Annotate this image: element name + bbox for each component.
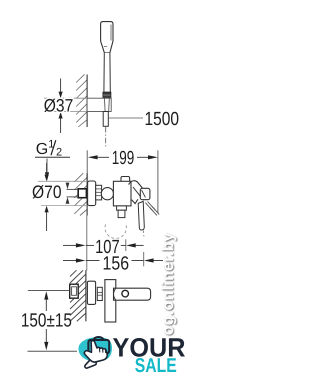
150 upper tail xyxy=(45,300,47,311)
finger separation lines xyxy=(100,349,106,353)
mixer body bar (bottom view) xyxy=(105,280,116,322)
svg-text:1500: 1500 xyxy=(145,109,180,130)
shopping bag body xyxy=(88,340,109,353)
bracket cone lines xyxy=(104,98,107,111)
199 dimension line xyxy=(97,156,109,158)
156 arrowhead right xyxy=(144,258,154,262)
shower outlet lower step xyxy=(118,210,125,217)
107 arrowhead left xyxy=(76,243,86,247)
107 arrowhead right xyxy=(126,243,136,247)
107 dimension line segments xyxy=(86,244,94,246)
shower head inner edge line xyxy=(110,25,112,41)
svg-text:2: 2 xyxy=(56,146,62,158)
dimension Ø37 arrow up-tail xyxy=(60,79,62,93)
hand shower head xyxy=(101,22,113,53)
hand wrist xyxy=(85,358,96,368)
dimension Ø70 arrow top tail xyxy=(46,163,48,175)
floor reference line xyxy=(28,350,78,352)
spout arm xyxy=(114,288,151,300)
156 right arrow tail xyxy=(153,260,163,262)
hose centerline (dash-dot) xyxy=(105,127,107,147)
lever top arc xyxy=(129,181,145,192)
dimension Ø37 arrow down-tail xyxy=(60,119,62,134)
leader line for 1500 xyxy=(108,117,143,119)
156 left arrow tail xyxy=(63,260,76,262)
150 lower tail xyxy=(45,329,47,342)
199 extension line right xyxy=(157,150,159,213)
G 1/2 leader arrowhead xyxy=(45,172,49,181)
dimension Ø70 arrow bottom tail xyxy=(46,212,48,231)
svg-text:Ø37: Ø37 xyxy=(44,96,74,116)
svg-text:G: G xyxy=(36,141,48,158)
nut flat lines xyxy=(96,188,102,190)
svg-text:Ø70: Ø70 xyxy=(32,182,62,202)
svg-text:156: 156 xyxy=(103,253,130,274)
mixer body (side view) xyxy=(113,181,131,206)
svg-text:SALE: SALE xyxy=(135,355,177,377)
fraction slash xyxy=(51,140,56,155)
lever end knob xyxy=(140,188,150,199)
left extension line continuing down to bottom view xyxy=(86,216,88,271)
150 arrowhead up xyxy=(44,291,48,299)
shower head taper mark xyxy=(104,45,107,47)
dimension Ø37 arrowhead top xyxy=(59,92,63,99)
spout hole xyxy=(122,290,129,297)
dimension Ø70 extension line bottom xyxy=(41,205,87,207)
hand (white with dark outline) xyxy=(84,341,107,362)
lever blade V notch xyxy=(132,199,138,203)
156 extension line right xyxy=(143,252,145,266)
107 right arrow tail xyxy=(136,244,144,246)
wall bracket arm xyxy=(87,98,111,111)
dashed swivel circle xyxy=(105,225,126,239)
ball joint xyxy=(101,188,113,200)
107 left arrow tail xyxy=(63,244,76,246)
107 extension line right xyxy=(125,239,127,251)
shower handle xyxy=(104,53,110,93)
G 1/2 leader arrow tail xyxy=(46,159,48,173)
wall section (top view) hatch xyxy=(76,74,87,127)
dimension Ø70 arrowhead bottom xyxy=(45,206,49,213)
G 1/2 underline xyxy=(35,156,70,158)
hose connector below bracket xyxy=(103,112,108,127)
dimension Ø37 arrowhead bottom xyxy=(59,112,63,119)
lever blade inner diagonal xyxy=(142,190,146,197)
handle clamp ring xyxy=(103,92,111,98)
nut lines xyxy=(97,291,102,293)
spout arm left bulge arc xyxy=(114,289,116,300)
cartridge knob on body top xyxy=(121,177,130,187)
lever blade diagonal xyxy=(133,187,141,197)
supply elbow outer square (in wall) xyxy=(70,284,79,298)
199 arrowhead right xyxy=(148,155,158,159)
supply centerline leader xyxy=(28,290,70,292)
wall section (side view) hatch xyxy=(74,173,92,215)
dimension Ø37 extension line top xyxy=(44,97,87,99)
supply pipe lines xyxy=(67,188,79,190)
inner arrowhead pair (supply pipe) top xyxy=(66,183,70,190)
wall face line (top view) xyxy=(86,75,88,128)
svg-text:og.onliner.by: og.onliner.by xyxy=(160,232,177,335)
wall section (bottom view) hatch xyxy=(70,270,86,321)
dimension Ø70 extension line top xyxy=(38,180,87,182)
inner arrowhead pair (supply pipe) bottom xyxy=(66,197,70,204)
mounting nut (bottom view) xyxy=(97,287,102,300)
199 arrowhead left xyxy=(88,155,98,159)
mounting nut (side view) xyxy=(96,185,102,200)
escutcheon (bottom view) xyxy=(87,281,95,304)
wall face line (bottom view) xyxy=(85,270,87,321)
supply elbow inner square xyxy=(72,287,77,296)
svg-text:150±15: 150±15 xyxy=(21,310,72,331)
lever handle (down position) xyxy=(138,201,144,230)
svg-text:199: 199 xyxy=(112,148,135,169)
156 dimension line segments xyxy=(86,260,100,262)
dimension Ø70 arrowhead top xyxy=(45,175,49,182)
shopping bag handle xyxy=(94,337,104,341)
dashed mark right xyxy=(142,231,145,237)
dimension Ø37 extension line bottom xyxy=(44,111,87,113)
shower outlet upper step xyxy=(117,206,127,210)
199 extension line left xyxy=(86,150,88,181)
concealed supply square (in wall) xyxy=(78,189,86,198)
wall face line (side view) xyxy=(86,173,88,215)
teal blob xyxy=(78,337,112,361)
escutcheon (side view) xyxy=(88,181,96,206)
150 arrowhead down xyxy=(44,342,48,350)
156 arrowhead left xyxy=(76,258,86,262)
alternate lever position diagonals xyxy=(145,202,159,216)
